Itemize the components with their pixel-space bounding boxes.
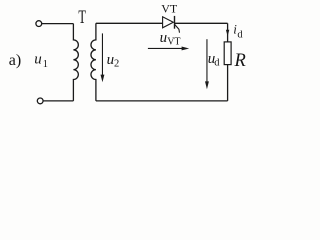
svg-text:2: 2 (114, 59, 119, 70)
svg-text:d: d (214, 58, 220, 69)
svg-text:a): a) (9, 52, 21, 69)
u2 arrow (101, 33, 105, 82)
terminal top-left (36, 21, 42, 27)
thyristor VT triangle (163, 17, 174, 28)
transformer T primary winding (73, 24, 78, 101)
svg-text:u: u (34, 52, 42, 68)
wire bottom-left (43, 100, 73, 102)
terminal bottom-left (37, 98, 43, 104)
thyristor VT gate lead (175, 24, 180, 33)
svg-text:T: T (78, 8, 86, 28)
svg-text:d: d (237, 29, 243, 40)
svg-text:u: u (160, 30, 168, 46)
svg-text:VT: VT (161, 2, 178, 16)
wire thyristor cathode to top-right corner (175, 22, 228, 24)
resistor R box (224, 42, 231, 65)
bottom rail (96, 100, 228, 102)
transformer T secondary winding (91, 23, 96, 101)
svg-text:1: 1 (43, 59, 48, 70)
ud arrow (205, 39, 209, 89)
wire top-right corner down to resistor (227, 23, 229, 42)
wire resistor bottom to bottom rail (227, 65, 229, 101)
wire secondary top to thyristor anode (96, 22, 163, 24)
wire top-left (42, 23, 74, 25)
thyristor VT cathode bar (174, 16, 176, 29)
svg-text:VT: VT (167, 36, 180, 47)
id arrowhead on wire (226, 30, 229, 36)
svg-text:u: u (107, 52, 115, 68)
svg-text:R: R (234, 51, 246, 71)
uVT arrow (148, 47, 189, 51)
